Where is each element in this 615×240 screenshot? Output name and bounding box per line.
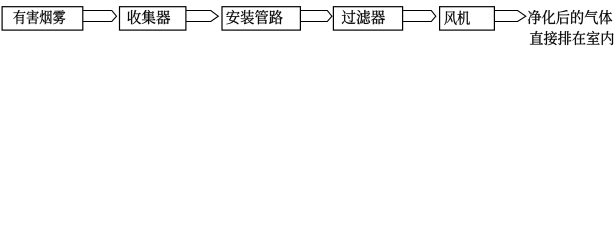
- flow arrow 1: [83, 11, 116, 22]
- process box 过滤器: [333, 7, 402, 30]
- process box 有害烟雾: [2, 7, 83, 30]
- label text 过滤器: [342, 10, 385, 24]
- flow arrow 4: [403, 11, 436, 22]
- label text 直接排在室内: [530, 31, 614, 45]
- label text 风机: [444, 11, 470, 25]
- flow arrow 5: [495, 11, 526, 22]
- label text 净化后的气体: [528, 10, 612, 24]
- process box 安装管路: [222, 7, 300, 30]
- process box 风机: [440, 7, 495, 30]
- label text 收集器: [128, 10, 171, 24]
- flow arrow 2: [186, 11, 218, 22]
- flow arrow 3: [301, 11, 332, 22]
- label text 安装管路: [226, 10, 282, 24]
- label text 有害烟雾: [13, 10, 65, 24]
- process box 收集器: [120, 7, 186, 30]
